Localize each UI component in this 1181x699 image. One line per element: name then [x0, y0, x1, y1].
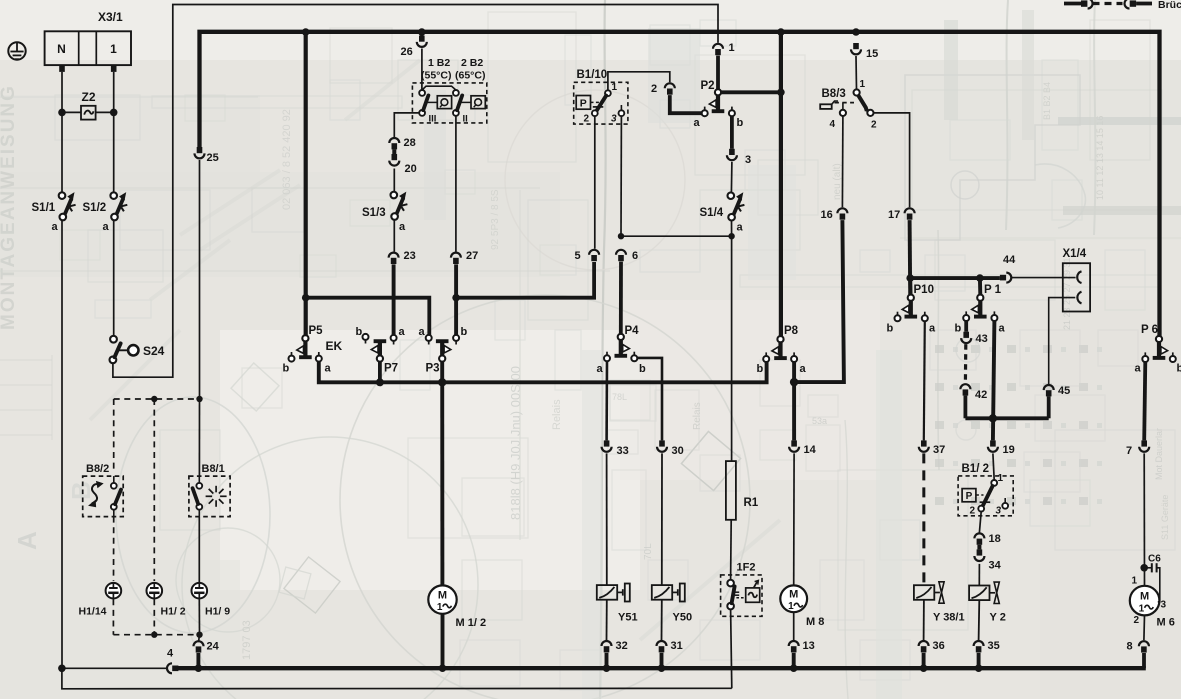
junction bus/36	[920, 664, 928, 672]
svg-text:Mot Dauerlar: Mot Dauerlar	[1154, 428, 1164, 480]
wire 7 to M6	[1143, 453, 1145, 585]
P7 terminal b	[363, 334, 369, 340]
switch S1/3	[391, 192, 398, 199]
wire B1/10.3 to node6-junction	[620, 116, 622, 236]
svg-text:III: III	[429, 114, 437, 125]
svg-text:a: a	[419, 326, 426, 338]
junction 1/Z2	[110, 109, 118, 117]
node 27 connector	[451, 253, 461, 258]
svg-text:Y 38/1: Y 38/1	[933, 612, 965, 624]
svg-text:a: a	[1135, 363, 1142, 375]
svg-text:Relais: Relais	[692, 402, 703, 430]
node 17 connector	[905, 208, 915, 213]
svg-text:(55°C): (55°C)	[421, 70, 451, 82]
wire Y51 to node 32	[606, 600, 608, 640]
wire 27 to P3.b	[454, 264, 458, 335]
svg-text:1797 03: 1797 03	[241, 620, 253, 660]
svg-text:16: 16	[821, 209, 833, 221]
node 2 connector	[665, 83, 675, 88]
svg-text:b: b	[1177, 363, 1181, 375]
program contact P8	[777, 336, 783, 342]
wire P2.b to node 3	[730, 116, 734, 149]
switch S1/4	[728, 192, 735, 199]
wire P10-P1-44 row	[910, 276, 1000, 280]
node 42 connector	[960, 384, 970, 389]
bottom return wire (R1 neutral)	[62, 668, 732, 689]
P6 terminal a	[1142, 356, 1148, 362]
stub 32 to bus	[605, 653, 609, 668]
motor M6	[1130, 586, 1160, 616]
wire row418 (42 to 45)	[965, 416, 1048, 420]
junction row278/P1	[976, 274, 984, 282]
junction S1/1-line/node4-line	[58, 665, 66, 673]
solenoid valve Y50	[652, 585, 672, 600]
svg-text:23: 23	[404, 250, 416, 262]
svg-text:20: 20	[405, 163, 417, 175]
svg-text:S1/3: S1/3	[362, 207, 386, 219]
junction N/Z2	[58, 109, 66, 117]
switch S1/2	[110, 192, 117, 199]
junction P5-drop/thermo-row	[302, 294, 310, 302]
X3/1 pin 1	[111, 65, 117, 72]
wire M6 to node 8	[1143, 615, 1146, 640]
wire L-drop (bus to P8)	[779, 32, 783, 336]
svg-text:78L: 78L	[612, 392, 627, 402]
wire H1/9 down	[198, 599, 200, 634]
svg-text:b: b	[356, 326, 363, 338]
wire 3 to S1/4	[730, 162, 733, 193]
program contact P3	[439, 356, 445, 362]
wire M8 to node 13	[793, 612, 795, 640]
svg-text:a: a	[399, 221, 406, 233]
svg-text:M: M	[1140, 590, 1149, 602]
svg-text:a: a	[999, 323, 1006, 335]
wire 20 to S1/3	[393, 169, 395, 192]
junction node6/row236	[618, 233, 624, 239]
svg-text:a: a	[929, 323, 936, 335]
P3 terminal a	[426, 335, 432, 341]
stub 8 to bottom bus	[1142, 653, 1146, 668]
svg-text:P3: P3	[426, 363, 440, 375]
P8 terminal b	[763, 356, 769, 362]
wire B1/10.2 to node 5	[594, 116, 596, 249]
program contact P2	[715, 89, 721, 95]
stub 35 to bus	[977, 653, 981, 668]
wire 37 to Y38/1 (dashed)	[922, 453, 925, 585]
switch B8/1 box (dashed)	[189, 476, 230, 516]
wire Y2 to node 35	[978, 600, 981, 640]
connector X1/4	[1063, 263, 1090, 311]
interference filter Z2	[81, 106, 96, 120]
svg-text:10 11 12 13 14 15 16: 10 11 12 13 14 15 16	[1095, 116, 1105, 200]
svg-text:II: II	[463, 114, 468, 125]
svg-text:1: 1	[612, 82, 618, 93]
svg-text:92 5P3 / 8 5S: 92 5P3 / 8 5S	[490, 189, 501, 250]
bridge connectors 28/20	[389, 138, 399, 143]
junction bus/31	[658, 664, 666, 672]
svg-text:Brüc: Brüc	[1158, 0, 1181, 11]
junction P1.a/row418	[989, 414, 997, 422]
svg-text:Y 2: Y 2	[990, 612, 1006, 624]
wire to node 4	[62, 667, 167, 669]
ground symbol (protective earth)	[8, 42, 25, 59]
svg-text:B1/ 2: B1/ 2	[962, 463, 990, 475]
B8/3 pin 4	[840, 110, 846, 116]
svg-text:b: b	[737, 117, 744, 129]
junction bus/35	[975, 664, 983, 672]
wire 1F2 to bottom return	[731, 609, 732, 688]
svg-text:7: 7	[1126, 445, 1132, 457]
P4 terminal a	[604, 355, 610, 361]
svg-text:MONTAGEANWEISUNG: MONTAGEANWEISUNG	[0, 84, 19, 330]
wire P8.a to node 14	[792, 361, 796, 440]
1F2 mech link (dashed)	[736, 597, 745, 599]
P1 terminal b	[963, 315, 969, 321]
svg-text:R1: R1	[744, 497, 759, 509]
wire 15 to B8/3	[855, 56, 858, 90]
B1/10 P element	[576, 96, 590, 110]
svg-text:2: 2	[584, 114, 590, 125]
bridge option 43-42 (dashed)	[964, 344, 968, 383]
svg-text:B8/2: B8/2	[86, 463, 109, 475]
junction S1/4-R1/row236	[728, 233, 734, 239]
svg-text:30: 30	[672, 445, 684, 457]
svg-text:53a: 53a	[812, 416, 827, 426]
svg-text:H1/ 2: H1/ 2	[161, 606, 186, 618]
motor M8	[780, 585, 807, 612]
node 16 connector	[837, 208, 847, 213]
node 1 connector (P2 feed)	[713, 44, 723, 49]
svg-text:b: b	[461, 326, 468, 338]
svg-text:P4: P4	[625, 325, 640, 337]
B1/2 P element	[962, 489, 976, 502]
svg-text:S1/4: S1/4	[700, 207, 724, 219]
thermostat 2B2 sensor	[471, 96, 485, 109]
P10 terminal b	[895, 315, 901, 321]
node 19 connector	[990, 440, 996, 446]
P2 terminal a	[702, 110, 708, 116]
B8/3 contact arm	[858, 95, 867, 111]
junction bus/node15	[852, 28, 860, 36]
svg-text:28: 28	[404, 137, 416, 149]
svg-text:1: 1	[860, 79, 866, 90]
svg-text:X3/1: X3/1	[98, 10, 123, 24]
svg-text:N: N	[57, 42, 66, 56]
stub 24 to bus	[196, 653, 200, 668]
svg-text:a: a	[399, 326, 406, 338]
junction bus/32	[603, 664, 611, 672]
svg-text:3: 3	[745, 154, 751, 166]
dashed option row (y=399)	[114, 398, 200, 400]
wire Y38/1 to node 36	[923, 600, 925, 640]
wire 25 to junction	[199, 160, 201, 399]
junction bus/M1-2	[439, 664, 447, 672]
svg-text:15: 15	[866, 48, 878, 60]
svg-text:H1/14: H1/14	[79, 606, 107, 618]
svg-text:3: 3	[611, 114, 617, 125]
B1/2 contact arm	[983, 486, 993, 506]
top supply bus (L)	[200, 32, 1160, 336]
wire R1 to 1F2	[730, 520, 733, 580]
dashed drop to H1/2	[153, 399, 155, 581]
svg-text:27: 27	[466, 250, 478, 262]
svg-text:31: 31	[671, 640, 683, 652]
svg-text:a: a	[737, 222, 744, 234]
wire 17 to P10	[908, 220, 913, 295]
wire 34 to Y2	[978, 564, 980, 585]
capacitor C6	[1147, 567, 1152, 569]
node 36 connector	[919, 641, 929, 646]
svg-text:a: a	[103, 221, 110, 233]
B8/1 drying symbol	[220, 495, 227, 497]
svg-text:Z2: Z2	[82, 90, 96, 104]
svg-text:1: 1	[729, 42, 735, 54]
wire N pin to S1/1	[61, 72, 63, 192]
svg-text:45: 45	[1058, 385, 1070, 397]
wire node6 to P4	[619, 262, 623, 334]
wire row236 (node6 to S1/4/R1)	[621, 235, 732, 237]
junction bus/P5 drop	[302, 28, 310, 36]
svg-text:Y51: Y51	[618, 612, 638, 624]
indicator lamp H1/14	[106, 583, 122, 599]
P5 terminal b	[289, 356, 295, 362]
node 44 connector	[1000, 275, 1006, 281]
dashed drop to B8/2	[113, 399, 115, 473]
junction lamp-row/H1-2	[151, 396, 157, 402]
node 26 connector	[419, 36, 425, 42]
wire thermo-row left (to P3.a)	[306, 298, 430, 335]
B1/2 pin 1	[991, 480, 997, 486]
program contact P7	[377, 356, 383, 362]
svg-text:8: 8	[1127, 641, 1133, 653]
svg-text:S1/1: S1/1	[32, 202, 56, 214]
svg-text:14: 14	[804, 444, 817, 456]
wire 30 to Y50	[661, 453, 663, 585]
svg-text:A: A	[12, 531, 42, 550]
stub 13 to bus	[792, 653, 796, 668]
node 13 connector	[789, 641, 799, 646]
indicator lamp H1/9	[192, 583, 208, 599]
dashed wire H1/14 down	[112, 599, 114, 634]
thermostat 1B2 contact	[419, 90, 425, 96]
B1/10 contact arm	[597, 96, 607, 111]
junction bus/node26	[418, 28, 426, 36]
svg-text:a: a	[325, 363, 332, 375]
svg-text:35: 35	[988, 640, 1000, 652]
svg-text:13: 13	[803, 640, 815, 652]
B8/3 mechanical link (dashed)	[835, 102, 855, 104]
wire 25-junction to B8/1	[198, 399, 200, 476]
node 14 connector	[791, 440, 797, 446]
svg-text:1: 1	[998, 473, 1004, 484]
svg-text:M: M	[438, 590, 447, 602]
legend bridge symbol	[1064, 2, 1081, 6]
program contact P6	[1156, 336, 1162, 342]
junction bus/P2-P8 drop	[777, 28, 785, 36]
svg-text:S1/2: S1/2	[83, 202, 107, 214]
P6 terminal b	[1170, 356, 1176, 362]
svg-text:26: 26	[401, 46, 413, 58]
wire P1.b to node 43	[964, 321, 968, 332]
wire B8/3.2 to node 17	[874, 113, 910, 207]
switch B8/2 box (dashed)	[83, 476, 124, 516]
solenoid valve Y2	[969, 586, 989, 601]
wire P10.a to node 37	[924, 321, 925, 441]
X3/1 pin N	[59, 65, 65, 72]
junction lamprow/H1-2	[151, 632, 157, 638]
wire 1B2 to node 28	[394, 113, 419, 137]
junction 25-line/lamp row	[196, 396, 202, 402]
wire S1/2 to S24	[113, 220, 115, 336]
node 8 connector	[1139, 641, 1149, 646]
svg-text:1: 1	[788, 601, 794, 612]
node 24 connector	[194, 641, 204, 646]
svg-text:M 6: M 6	[1157, 617, 1175, 629]
B8/3 pin 2	[867, 110, 873, 116]
junction bus/13	[790, 664, 798, 672]
dashed wire H1/2 down	[153, 599, 155, 634]
node 35 connector	[974, 641, 984, 646]
wire 45 stub	[1047, 396, 1051, 418]
P10 terminal a	[922, 315, 928, 321]
program contact P4	[618, 334, 624, 340]
node 31 connector	[657, 641, 667, 646]
B1/10 pin 2	[592, 110, 598, 116]
P8 terminal a	[791, 356, 797, 362]
thermostat 2B2 contact	[453, 90, 459, 96]
wire 42 to row418	[964, 396, 968, 419]
wire to node 24	[199, 635, 200, 643]
svg-text:25: 25	[207, 152, 219, 164]
svg-text:a: a	[694, 117, 701, 129]
svg-text:18: 18	[989, 533, 1001, 545]
wire S1/4 to row236	[731, 221, 733, 237]
svg-text:02 063 / 8 52 420 92: 02 063 / 8 52 420 92	[281, 109, 293, 210]
wire P10 drop	[908, 278, 912, 295]
node 33 connector	[604, 440, 610, 446]
node 15 connector	[853, 43, 859, 49]
svg-text:1: 1	[1132, 576, 1138, 587]
svg-text:Relais: Relais	[551, 399, 563, 430]
pressure switch B1/2 box (dashed)	[958, 476, 1013, 516]
bridge wire 1B2-2B2	[422, 86, 456, 90]
svg-text:34: 34	[989, 560, 1002, 572]
thermal fuse 1F2 box (dashed)	[721, 575, 762, 616]
svg-text:42: 42	[975, 389, 987, 401]
wire B8/3.4 to node 16	[841, 116, 844, 207]
1F2 contact	[727, 580, 734, 587]
bottom bus (N)	[177, 666, 1146, 670]
svg-text:44: 44	[1003, 254, 1016, 266]
svg-text:S11 Geräte: S11 Geräte	[1160, 495, 1170, 540]
B1/2 pin 2	[978, 506, 984, 512]
wire 19 to B1/2	[993, 453, 994, 480]
svg-text:Y50: Y50	[673, 612, 693, 624]
svg-text:a: a	[52, 221, 59, 233]
pressure switch B1/10 box (dashed)	[574, 82, 628, 124]
junction lamprow/H1-9	[196, 632, 202, 638]
junction P8.a/16-row	[790, 378, 798, 386]
wire P1.a to node 19	[993, 321, 995, 441]
B8/1 contact	[196, 483, 202, 489]
B8/2 rotation-sensor symbol	[92, 484, 100, 503]
P4 terminal b	[631, 355, 637, 361]
svg-text:4: 4	[830, 119, 836, 130]
svg-text:B1/10: B1/10	[577, 69, 608, 81]
svg-text:70L: 70L	[643, 543, 654, 560]
node 6 connector	[616, 250, 626, 255]
wire 16 to P8 junction	[794, 220, 844, 382]
svg-text:P: P	[966, 491, 973, 502]
junction row278/P10	[906, 274, 914, 282]
wire 45 to X1/4	[1049, 298, 1076, 385]
junction bus/24	[195, 664, 203, 672]
svg-text:P8: P8	[784, 325, 799, 337]
node 4 connector	[167, 663, 172, 673]
wire node2 to P2.a	[670, 95, 702, 113]
svg-text:1 B2: 1 B2	[428, 57, 450, 69]
node 30 connector	[659, 440, 665, 446]
B8/3 actuator flag	[820, 104, 832, 109]
svg-text:C6: C6	[1148, 554, 1161, 565]
P2 terminal b	[729, 110, 735, 116]
wire Y50 to node 31	[661, 600, 663, 640]
svg-text:B8/1: B8/1	[202, 463, 225, 475]
thermostat 1B2 sensor	[437, 96, 451, 109]
program contact P10	[908, 295, 914, 301]
wire 44 to X1/4	[1011, 277, 1075, 279]
node 32 connector	[602, 641, 612, 646]
B1/10 pin 3	[619, 110, 625, 116]
P3 terminal b	[453, 335, 459, 341]
solenoid valve Y38/1	[914, 585, 934, 600]
svg-text:P 1: P 1	[984, 284, 1002, 296]
P1 terminal a	[991, 315, 997, 321]
svg-text:1F2: 1F2	[737, 562, 756, 574]
svg-text:neu (alt): neu (alt)	[832, 163, 843, 200]
resistor R1	[726, 461, 736, 520]
wire S1/1 to bottom rail	[61, 220, 63, 668]
junction EK/P3	[438, 378, 446, 386]
node 5 connector	[589, 250, 599, 255]
thermostat box B2 (dashed)	[412, 83, 486, 123]
B8/3 pin 1	[854, 89, 860, 95]
node 43 connector	[963, 332, 969, 338]
wire P4.b to node 30	[637, 358, 662, 441]
B8/2 contact	[111, 483, 117, 489]
switch S24	[110, 336, 117, 343]
wire P6.a to node 7	[1144, 362, 1145, 441]
wire 33 to Y51	[606, 453, 608, 585]
svg-text:P: P	[580, 98, 587, 110]
dashed wire B8/2 to H1/14	[113, 517, 115, 581]
EK feed bus	[319, 361, 767, 382]
svg-text:3: 3	[1161, 600, 1167, 611]
svg-text:b: b	[955, 323, 962, 335]
motor M1/2	[428, 585, 456, 613]
node 7 connector	[1141, 440, 1147, 446]
P7 terminal a	[391, 335, 397, 341]
svg-text:M 1/ 2: M 1/ 2	[456, 617, 487, 629]
svg-text:b: b	[283, 363, 290, 375]
bridge connectors 18/34	[974, 533, 984, 538]
junction EK/P7	[376, 378, 384, 386]
wire node1 to P2 common	[716, 56, 720, 90]
switch S1/1	[59, 192, 66, 199]
wire thermo-row right (27 to node5)	[456, 262, 594, 298]
wire 23 to P7.a	[392, 264, 396, 335]
svg-text:a: a	[597, 363, 604, 375]
